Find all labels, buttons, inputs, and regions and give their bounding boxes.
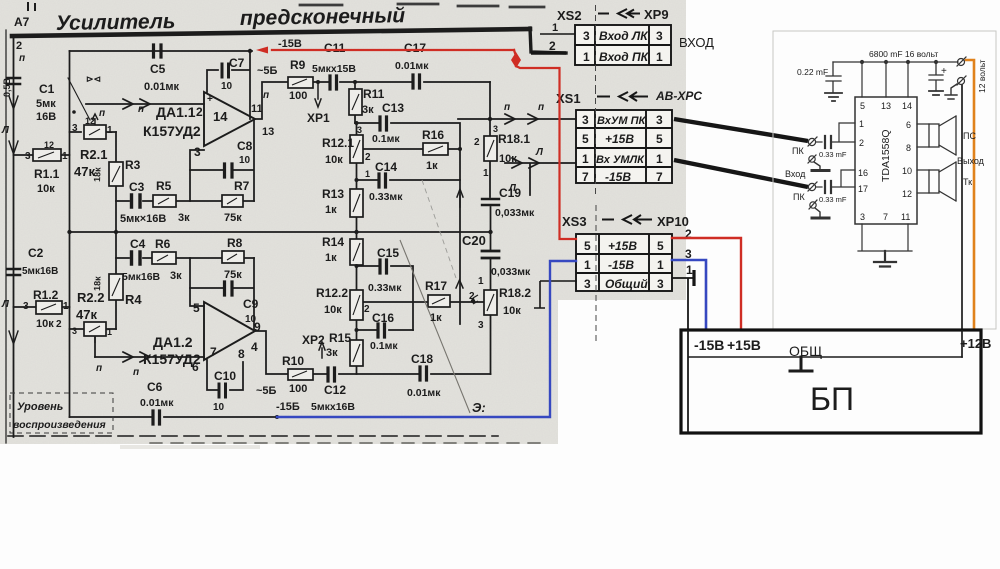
svg-text:С2: С2: [28, 246, 44, 260]
svg-text:Общий: Общий: [605, 277, 648, 291]
svg-text:7: 7: [656, 170, 663, 184]
svg-text:5: 5: [860, 101, 865, 111]
svg-text:2: 2: [365, 152, 371, 163]
svg-text:3: 3: [584, 277, 591, 291]
svg-text:Л: Л: [508, 183, 517, 194]
svg-text:0.01мк: 0.01мк: [395, 60, 429, 72]
svg-text:R16: R16: [422, 128, 444, 142]
svg-text:ПК: ПК: [793, 192, 805, 202]
svg-text:R15: R15: [329, 331, 351, 345]
svg-text:1к: 1к: [325, 252, 337, 264]
svg-text:18к: 18к: [92, 276, 103, 291]
svg-text:п: п: [19, 53, 25, 64]
svg-text:5мк×16В: 5мк×16В: [120, 213, 166, 225]
svg-text:~5Б: ~5Б: [257, 65, 278, 77]
svg-text:ХР1: ХР1: [307, 111, 330, 125]
svg-text:5мк16В: 5мк16В: [22, 266, 58, 277]
svg-text:С6: С6: [147, 380, 163, 394]
svg-text:1к: 1к: [325, 204, 337, 216]
svg-text:-15В: -15В: [278, 38, 302, 50]
svg-text:0.1мк: 0.1мк: [372, 133, 400, 145]
svg-text:R3: R3: [125, 158, 141, 172]
svg-text:ДА1.2: ДА1.2: [153, 334, 193, 350]
svg-text:+15В: +15В: [727, 337, 761, 353]
svg-text:ДА1.1: ДА1.1: [156, 104, 196, 120]
svg-text:5: 5: [584, 239, 591, 253]
svg-text:Тк: Тк: [963, 177, 972, 187]
svg-text:47к: 47к: [76, 307, 97, 322]
svg-text:С11: С11: [324, 41, 346, 55]
svg-text:БП: БП: [810, 381, 854, 417]
svg-text:предсконечный: предсконечный: [240, 4, 406, 30]
svg-text:Э:: Э:: [472, 400, 486, 415]
svg-text:1: 1: [859, 119, 864, 129]
svg-text:ПС: ПС: [963, 131, 976, 141]
svg-text:6: 6: [192, 360, 199, 374]
svg-text:10к: 10к: [499, 153, 517, 165]
svg-text:1к: 1к: [430, 312, 442, 324]
svg-text:С7: С7: [229, 56, 245, 70]
svg-text:R18.2: R18.2: [499, 286, 531, 300]
svg-text:17: 17: [858, 184, 868, 194]
svg-text:0.33 mF: 0.33 mF: [819, 150, 847, 159]
svg-text:2: 2: [16, 40, 22, 52]
svg-text:0.1мк: 0.1мк: [370, 340, 398, 352]
svg-text:Л: Л: [1, 125, 10, 136]
svg-text:ВхУМ ПК: ВхУМ ПК: [597, 115, 646, 127]
svg-text:3: 3: [657, 277, 664, 291]
svg-text:R9: R9: [290, 58, 306, 72]
svg-text:ХР2: ХР2: [302, 333, 325, 347]
svg-text:1: 1: [552, 22, 558, 34]
svg-text:3: 3: [357, 125, 362, 135]
svg-text:С9: С9: [243, 297, 259, 311]
svg-text:1: 1: [686, 263, 693, 277]
svg-text:Вход: Вход: [785, 169, 806, 179]
svg-text:10: 10: [239, 155, 251, 166]
svg-text:С10: С10: [214, 369, 236, 383]
svg-text:3: 3: [25, 151, 31, 162]
svg-text:R12.1: R12.1: [322, 136, 354, 150]
svg-text:R8: R8: [227, 236, 243, 250]
svg-text:R10: R10: [282, 354, 304, 368]
svg-text:3: 3: [493, 124, 498, 134]
svg-text:13: 13: [881, 101, 891, 111]
svg-text:2: 2: [474, 137, 480, 148]
svg-text:R2.1: R2.1: [80, 147, 107, 162]
svg-text:TDA1558Q: TDA1558Q: [880, 129, 892, 182]
svg-text:2: 2: [196, 105, 203, 119]
svg-text:12: 12: [902, 189, 912, 199]
svg-text:8: 8: [238, 347, 245, 361]
svg-text:ХS3: ХS3: [562, 214, 587, 229]
svg-text:0,033мк: 0,033мк: [495, 207, 535, 219]
svg-text:А7: А7: [14, 15, 30, 29]
svg-text:3: 3: [860, 212, 865, 222]
svg-text:75к: 75к: [224, 212, 242, 224]
svg-text:ВХОД: ВХОД: [679, 35, 714, 50]
svg-text:ХS2: ХS2: [557, 8, 582, 23]
svg-text:5мк: 5мк: [36, 98, 56, 110]
svg-text:С13: С13: [382, 101, 404, 115]
svg-text:С5: С5: [150, 62, 166, 76]
svg-text:3: 3: [478, 320, 484, 331]
svg-text:1: 1: [63, 301, 69, 312]
svg-text:+: +: [941, 66, 947, 77]
svg-text:3: 3: [23, 301, 29, 312]
svg-text:R11: R11: [363, 87, 385, 101]
svg-text:Уровень: Уровень: [17, 401, 63, 413]
svg-text:1: 1: [582, 152, 589, 166]
svg-text:С4: С4: [130, 237, 146, 251]
svg-text:1к: 1к: [426, 160, 438, 172]
svg-text:3к: 3к: [326, 347, 338, 359]
svg-text:3к: 3к: [170, 270, 182, 282]
svg-text:1: 1: [478, 276, 484, 287]
svg-text:3: 3: [583, 29, 590, 43]
svg-text:1: 1: [656, 50, 663, 64]
svg-text:3: 3: [656, 29, 663, 43]
svg-text:R5: R5: [156, 179, 172, 193]
svg-text:8: 8: [906, 143, 911, 153]
svg-text:0.22 mF: 0.22 mF: [797, 67, 828, 77]
svg-text:10к: 10к: [324, 304, 342, 316]
svg-text:С15: С15: [377, 246, 399, 260]
svg-text:R1.2: R1.2: [33, 288, 59, 302]
svg-text:18к: 18к: [92, 167, 103, 182]
svg-text:Вход ПК: Вход ПК: [599, 50, 650, 64]
svg-text:100: 100: [289, 383, 307, 395]
svg-text:12 вольт: 12 вольт: [977, 59, 987, 93]
svg-text:С14: С14: [375, 160, 397, 174]
svg-text:-15В: -15В: [608, 258, 634, 272]
svg-text:~5Б: ~5Б: [256, 385, 277, 397]
svg-text:1: 1: [583, 50, 590, 64]
svg-text:С16: С16: [372, 311, 394, 325]
svg-text:13: 13: [262, 126, 274, 138]
svg-text:0.33мк: 0.33мк: [368, 282, 402, 294]
svg-text:9: 9: [254, 320, 261, 334]
svg-text:5мк16В: 5мк16В: [122, 271, 161, 283]
svg-text:ХР9: ХР9: [644, 7, 669, 22]
svg-text:п: п: [138, 104, 144, 115]
svg-text:1: 1: [107, 125, 113, 136]
svg-text:5: 5: [582, 132, 589, 146]
svg-text:1: 1: [107, 327, 112, 337]
svg-text:-15Б: -15Б: [276, 401, 300, 413]
svg-text:3: 3: [656, 113, 663, 127]
svg-text:3: 3: [72, 123, 78, 134]
svg-text:R6: R6: [155, 237, 171, 251]
svg-text:R14: R14: [322, 235, 344, 249]
svg-text:3: 3: [194, 145, 201, 159]
svg-text:0,033мк: 0,033мк: [491, 266, 531, 278]
svg-text:11: 11: [901, 212, 910, 222]
svg-text:R12.2: R12.2: [316, 286, 348, 300]
svg-text:С8: С8: [237, 139, 253, 153]
svg-text:ОБЩ: ОБЩ: [789, 343, 822, 359]
svg-text:R1.1: R1.1: [34, 167, 60, 181]
svg-text:К157УД2: К157УД2: [143, 123, 201, 139]
svg-text:0.33мк: 0.33мк: [369, 191, 403, 203]
svg-text:2: 2: [859, 138, 864, 148]
svg-text:R13: R13: [322, 187, 344, 201]
svg-text:п: п: [133, 367, 139, 378]
svg-text:5мкх16В: 5мкх16В: [311, 401, 355, 413]
svg-text:-15В: -15В: [694, 337, 724, 353]
svg-text:+15В: +15В: [605, 132, 634, 146]
svg-text:п: п: [96, 363, 102, 374]
svg-text:12: 12: [85, 116, 95, 126]
svg-text:10к: 10к: [37, 183, 55, 195]
svg-text:п: п: [504, 102, 510, 113]
svg-text:10к: 10к: [36, 318, 54, 330]
svg-text:0.33 mF: 0.33 mF: [819, 195, 847, 204]
svg-text:2: 2: [549, 39, 556, 53]
svg-text:1: 1: [365, 169, 370, 179]
svg-text:5: 5: [193, 301, 200, 315]
svg-text:4: 4: [251, 340, 258, 354]
svg-text:6: 6: [906, 120, 911, 130]
svg-text:5: 5: [656, 132, 663, 146]
svg-text:С3: С3: [129, 180, 145, 194]
svg-text:R4: R4: [125, 292, 142, 307]
svg-text:С1: С1: [39, 82, 55, 96]
svg-text:Вх УМЛК: Вх УМЛК: [596, 154, 645, 166]
svg-text:12: 12: [44, 140, 54, 150]
svg-text:R7: R7: [234, 179, 250, 193]
svg-text:воспроизведения: воспроизведения: [13, 419, 106, 431]
svg-text:0.01мк: 0.01мк: [140, 397, 174, 409]
svg-text:2: 2: [364, 304, 370, 315]
svg-text:3к: 3к: [362, 104, 374, 116]
svg-text:1: 1: [483, 168, 489, 179]
svg-text:R17: R17: [425, 279, 447, 293]
svg-text:Выход: Выход: [957, 156, 985, 166]
svg-text:АВ-ХРС: АВ-ХРС: [655, 89, 702, 103]
svg-text:С20: С20: [462, 233, 486, 248]
svg-text:1: 1: [584, 258, 591, 272]
svg-text:10: 10: [221, 81, 233, 92]
svg-text:7: 7: [883, 212, 888, 222]
svg-text:14: 14: [902, 101, 912, 111]
svg-text:10: 10: [902, 166, 912, 176]
svg-text:16В: 16В: [36, 111, 56, 123]
svg-text:ПК: ПК: [792, 146, 804, 156]
svg-text:п: п: [263, 90, 269, 101]
svg-text:п: п: [538, 102, 544, 113]
svg-text:R2.2: R2.2: [77, 290, 104, 305]
svg-text:-15В: -15В: [605, 170, 631, 184]
svg-text:+: +: [207, 94, 213, 105]
svg-text:0.01мк: 0.01мк: [407, 387, 441, 399]
svg-text:7: 7: [582, 170, 589, 184]
svg-text:3: 3: [72, 326, 77, 336]
svg-text:3к: 3к: [178, 212, 190, 224]
svg-text:2: 2: [56, 319, 62, 330]
svg-text:14: 14: [213, 109, 228, 124]
svg-text:0,5В: 0,5В: [2, 77, 12, 97]
svg-text:5мкх15В: 5мкх15В: [312, 63, 356, 75]
svg-text:10к: 10к: [503, 305, 521, 317]
svg-text:С12: С12: [324, 383, 346, 397]
svg-text:100: 100: [289, 90, 307, 102]
svg-text:п: п: [99, 108, 105, 119]
svg-text:Л: Л: [1, 299, 10, 310]
svg-text:Л: Л: [535, 147, 544, 158]
svg-text:1: 1: [657, 258, 664, 272]
svg-text:6800 mF 16 вольт: 6800 mF 16 вольт: [869, 49, 938, 59]
svg-text:11: 11: [251, 103, 263, 115]
svg-text:3: 3: [582, 113, 589, 127]
svg-text:Усилитель: Усилитель: [56, 10, 176, 35]
svg-text:7: 7: [210, 345, 217, 359]
svg-text:R18.1: R18.1: [498, 132, 530, 146]
svg-text:С18: С18: [411, 352, 433, 366]
svg-text:1: 1: [62, 151, 68, 162]
svg-text:+15В: +15В: [608, 239, 637, 253]
svg-text:75к: 75к: [224, 269, 242, 281]
svg-text:1: 1: [656, 152, 663, 166]
svg-text:10: 10: [213, 402, 225, 413]
svg-text:Вход ЛК: Вход ЛК: [599, 29, 649, 43]
svg-text:0.01мк: 0.01мк: [144, 81, 180, 93]
svg-text:16: 16: [858, 168, 868, 178]
svg-text:10к: 10к: [325, 154, 343, 166]
svg-text:5: 5: [657, 239, 664, 253]
svg-text:2: 2: [469, 291, 475, 302]
svg-text:+12В: +12В: [960, 336, 991, 351]
svg-text:⊳⊲: ⊳⊲: [86, 74, 101, 84]
svg-text:С17: С17: [404, 41, 426, 55]
